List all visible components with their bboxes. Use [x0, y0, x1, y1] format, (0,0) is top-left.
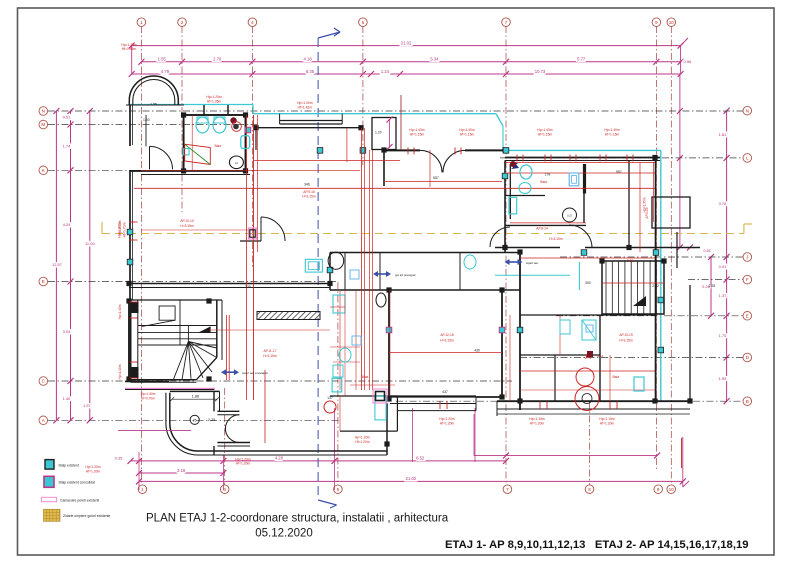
svg-text:Hp=1.40m: Hp=1.40m [409, 128, 425, 132]
svg-text:7: 7 [505, 20, 508, 25]
svg-text:1.24: 1.24 [381, 69, 390, 74]
svg-text:21.02: 21.02 [406, 476, 417, 481]
svg-text:1.81: 1.81 [719, 132, 728, 137]
svg-text:Hf=0.70m: Hf=0.70m [141, 397, 155, 401]
svg-text:Zidarie umplere goluri existen: Zidarie umplere goluri existente [63, 514, 110, 518]
svg-text:F: F [746, 277, 749, 282]
svg-text:AP.8-14: AP.8-14 [536, 227, 548, 231]
svg-text:PLAN ETAJ 1-2-coordonare struc: PLAN ETAJ 1-2-coordonare structura, inst… [146, 513, 449, 525]
svg-text:2.02: 2.02 [652, 284, 659, 288]
svg-text:3.78: 3.78 [719, 201, 728, 206]
svg-text:437: 437 [442, 390, 448, 394]
svg-text:3: 3 [223, 487, 226, 492]
svg-text:Apart aer prestapat: Apart aer prestapat [242, 371, 268, 375]
svg-text:Hp=1.20m: Hp=1.20m [206, 95, 222, 99]
svg-text:AP.11-17: AP.11-17 [263, 349, 276, 353]
svg-text:2.25: 2.25 [208, 418, 215, 422]
svg-text:11.00: 11.00 [85, 241, 95, 246]
svg-text:0.35: 0.35 [115, 456, 124, 461]
svg-text:3.04: 3.04 [63, 329, 72, 334]
svg-text:H=3.10m: H=3.10m [549, 237, 563, 241]
svg-text:1.37: 1.37 [719, 293, 728, 298]
svg-text:1.55: 1.55 [719, 376, 728, 381]
svg-text:Hf=1.15m: Hf=1.15m [460, 133, 475, 137]
svg-text:1.57: 1.57 [83, 403, 92, 408]
svg-text:Hp=1.20m: Hp=1.20m [439, 417, 455, 421]
svg-text:10.73: 10.73 [535, 69, 546, 74]
svg-text:E: E [746, 313, 749, 318]
svg-text:5.77: 5.77 [577, 57, 586, 62]
svg-text:12.57: 12.57 [52, 262, 63, 267]
svg-text:B: B [746, 399, 749, 404]
svg-text:9: 9 [655, 20, 658, 25]
svg-text:Hp=1.40m: Hp=1.40m [141, 392, 156, 396]
svg-text:Hf=1.42m: Hf=1.42m [298, 106, 313, 110]
svg-text:1.30: 1.30 [143, 118, 150, 122]
svg-text:Hf=1.20m: Hf=1.20m [440, 422, 455, 426]
svg-text:Stalp existent consolidat: Stalp existent consolidat [58, 481, 95, 485]
svg-text:557: 557 [616, 170, 622, 174]
svg-text:0.55: 0.55 [704, 249, 711, 253]
svg-text:Hf=0.70m: Hf=0.70m [123, 222, 127, 237]
svg-text:Hp=1.40m: Hp=1.40m [459, 128, 475, 132]
svg-text:AP.13-19: AP.13-19 [619, 333, 632, 337]
svg-text:430: 430 [474, 349, 480, 353]
svg-text:6.35: 6.35 [306, 69, 315, 74]
svg-text:A.A1: A.A1 [597, 354, 604, 358]
svg-text:Hp=1.15m: Hp=1.15m [599, 417, 615, 421]
svg-text:M: M [41, 122, 45, 127]
svg-text:9: 9 [657, 487, 660, 492]
svg-text:3.00: 3.00 [627, 259, 634, 263]
svg-text:4: 4 [251, 20, 254, 25]
svg-text:0.91: 0.91 [719, 264, 728, 269]
svg-text:2.70: 2.70 [213, 57, 222, 62]
svg-text:Baia: Baia [540, 180, 547, 184]
svg-text:Hf=1.35m: Hf=1.35m [207, 100, 222, 104]
svg-text:4.24: 4.24 [63, 222, 72, 227]
svg-text:H=3.15m: H=3.15m [302, 195, 316, 199]
svg-text:05.12.2020: 05.12.2020 [255, 528, 313, 540]
svg-text:1.40: 1.40 [63, 396, 72, 401]
svg-text:346: 346 [304, 183, 310, 187]
svg-text:H=3.15m: H=3.15m [263, 354, 277, 358]
svg-text:1.74: 1.74 [63, 144, 72, 149]
svg-text:6.52: 6.52 [416, 456, 425, 461]
svg-text:330: 330 [245, 285, 251, 289]
svg-text:Hp=1.40m: Hp=1.40m [118, 220, 122, 235]
svg-text:Hf=1.20m: Hf=1.20m [530, 422, 545, 426]
svg-text:Hp=1.20m: Hp=1.20m [355, 436, 371, 440]
svg-text:4.18: 4.18 [304, 57, 313, 62]
svg-text:Hp=1.35m: Hp=1.35m [643, 197, 647, 212]
svg-text:LU: LU [235, 161, 238, 165]
svg-text:H=3.15m: H=3.15m [180, 224, 194, 228]
svg-text:1.70: 1.70 [719, 333, 728, 338]
svg-text:Hp=1.15m: Hp=1.15m [529, 417, 545, 421]
svg-text:AP.10-10: AP.10-10 [180, 219, 193, 223]
svg-text:7: 7 [506, 487, 509, 492]
svg-text:178: 178 [545, 173, 551, 177]
svg-text:Hp=1.40m: Hp=1.40m [604, 128, 620, 132]
svg-text:E: E [42, 279, 45, 284]
svg-text:L: L [746, 156, 749, 161]
svg-text:4.28: 4.28 [275, 456, 284, 461]
svg-text:AP.9-15: AP.9-15 [303, 190, 315, 194]
svg-text:N: N [42, 109, 45, 114]
svg-text:Hp=1.40m: Hp=1.40m [118, 364, 122, 379]
svg-text:1: 1 [141, 487, 144, 492]
svg-text:5: 5 [337, 487, 340, 492]
svg-text:0.51: 0.51 [63, 115, 72, 120]
svg-text:25: 25 [193, 418, 197, 422]
svg-text:Stalp existent: Stalp existent [58, 464, 78, 468]
svg-text:Hp=1.40m: Hp=1.40m [118, 304, 122, 319]
svg-text:Hp=1.00m: Hp=1.00m [297, 101, 313, 105]
svg-text:2.28: 2.28 [709, 284, 716, 288]
svg-text:6: 6 [362, 20, 365, 25]
svg-text:Camasuire pereti existenti: Camasuire pereti existenti [60, 499, 99, 503]
svg-text:300: 300 [585, 281, 591, 285]
svg-text:Hf=1.20m: Hf=1.20m [236, 462, 251, 466]
svg-text:137: 137 [327, 396, 333, 400]
svg-text:5.34: 5.34 [430, 57, 439, 62]
svg-text:H=3.15m: H=3.15m [440, 339, 454, 343]
svg-text:10: 10 [669, 20, 675, 25]
svg-text:N: N [746, 108, 749, 113]
svg-text:0.56: 0.56 [684, 59, 693, 64]
svg-text:1.20: 1.20 [375, 130, 382, 134]
svg-text:ETAJ 1- AP 8,9,10,11,12,13 E: ETAJ 1- AP 8,9,10,11,12,13 ETAJ 2- AP 14… [445, 539, 749, 551]
svg-text:8: 8 [588, 487, 591, 492]
svg-text:H=3.15m: H=3.15m [619, 339, 633, 343]
svg-text:10: 10 [669, 487, 675, 492]
svg-text:Hf=1.20m: Hf=1.20m [355, 440, 370, 444]
svg-text:Baia: Baia [362, 375, 369, 379]
svg-text:Hp=1.40m: Hp=1.40m [537, 128, 553, 132]
svg-text:LU2: LU2 [567, 214, 572, 218]
svg-text:Hf=1.20m: Hf=1.20m [600, 422, 615, 426]
svg-text:Baia: Baia [214, 144, 221, 148]
svg-text:3.19: 3.19 [177, 468, 186, 473]
svg-text:557: 557 [433, 176, 439, 180]
svg-text:Hf=1.15m: Hf=1.15m [538, 133, 553, 137]
svg-text:1.86: 1.86 [192, 395, 199, 399]
svg-text:Hf=1.20m: Hf=1.20m [86, 470, 101, 474]
svg-text:Hp=1.20m: Hp=1.20m [85, 465, 101, 469]
svg-text:Hf=1.15m: Hf=1.15m [410, 133, 425, 137]
svg-text:Hf=1.15m: Hf=1.15m [605, 133, 620, 137]
svg-text:2: 2 [181, 20, 184, 25]
svg-text:1.55: 1.55 [150, 102, 157, 106]
svg-text:21.02: 21.02 [401, 40, 412, 45]
svg-text:Apart aer: Apart aer [526, 261, 538, 265]
svg-text:4.79: 4.79 [161, 69, 170, 74]
svg-text:Hf=1.55m: Hf=1.55m [122, 47, 137, 51]
svg-text:1: 1 [140, 20, 143, 25]
svg-text:1.55: 1.55 [158, 57, 167, 62]
svg-text:AP.12-16: AP.12-16 [440, 333, 453, 337]
svg-text:Baia: Baia [612, 375, 619, 379]
svg-text:J: J [746, 255, 748, 260]
svg-text:gol tpl presqpat: gol tpl presqpat [395, 273, 416, 277]
